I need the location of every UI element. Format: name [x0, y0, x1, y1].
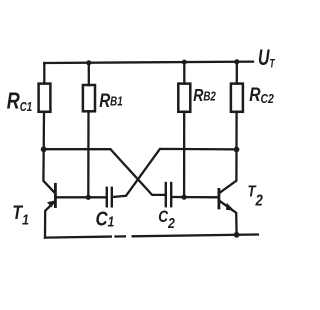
svg-text:RB2: RB2	[193, 85, 216, 105]
wire T1 base lead	[57, 196, 106, 198]
svg-text:RB1: RB1	[99, 89, 122, 111]
wire cross-coupling from T1 collector node to C2	[44, 149, 165, 195]
svg-text:UT: UT	[258, 47, 275, 71]
svg-text:C2: C2	[158, 208, 175, 231]
transistor T2 emitter arrow	[226, 203, 235, 211]
label T1	[12, 202, 29, 228]
wire C2 right lead / T2 base lead	[172, 196, 217, 199]
wire RC1 top lead	[43, 63, 45, 84]
node dot T1 base / RB1	[86, 195, 91, 200]
transistor T2 base bar	[217, 189, 220, 208]
label C2	[158, 208, 175, 231]
transistor T1 emitter arrow	[47, 201, 55, 208]
transistor T1 collector	[43, 149, 54, 192]
node dot T1 collector	[41, 146, 47, 152]
resistor RC2	[231, 84, 243, 112]
capacitor C2	[165, 183, 167, 206]
wire bottom rail right solid segment	[133, 235, 258, 237]
label T2	[248, 184, 263, 210]
wire cross-coupling from T2 collector node to C1	[113, 149, 237, 197]
wire RB1 bottom lead to T1 base node	[87, 111, 89, 197]
wire RB1 top lead	[88, 63, 90, 85]
wire RB2 bottom lead to T2 base node	[183, 112, 185, 197]
wire bottom rail dash segment	[116, 235, 125, 237]
label RC2	[249, 83, 274, 106]
svg-text:T2: T2	[248, 184, 263, 210]
node dot RB2 on supply rail	[182, 60, 187, 65]
label RB1	[99, 89, 122, 111]
node dot RC2 on supply rail	[234, 59, 239, 64]
wire RC1 bottom lead to collector node	[43, 112, 46, 150]
svg-text:C1: C1	[96, 207, 115, 230]
resistor RC1	[39, 84, 51, 112]
capacitor C1	[106, 188, 108, 207]
svg-text:RC2: RC2	[249, 83, 274, 106]
label C1	[96, 207, 115, 230]
transistor T2 collector	[220, 150, 237, 193]
wire top supply rail	[44, 62, 253, 63]
transistor T2 emitter	[220, 201, 237, 235]
node dot T2 collector	[234, 147, 240, 153]
node dot T2 emitter on bottom rail	[234, 232, 240, 238]
transistor T1 base bar	[54, 184, 57, 206]
wire bottom rail left solid segment	[45, 237, 111, 238]
node dot RB1 on supply rail	[86, 60, 91, 65]
transistor T1 emitter	[45, 202, 55, 238]
label RB2	[193, 85, 216, 105]
wire RC2 bottom lead to collector node	[235, 112, 237, 150]
node dot T2 base / RB2	[182, 195, 187, 200]
wire RB2 top lead	[183, 62, 185, 84]
svg-text:T1: T1	[12, 202, 29, 228]
label UT supply	[258, 47, 275, 71]
svg-text:RC1: RC1	[7, 89, 32, 115]
resistor RB2	[178, 84, 190, 112]
label RC1	[7, 89, 32, 115]
resistor RB1	[83, 85, 95, 111]
wire RC2 top lead	[236, 62, 238, 84]
